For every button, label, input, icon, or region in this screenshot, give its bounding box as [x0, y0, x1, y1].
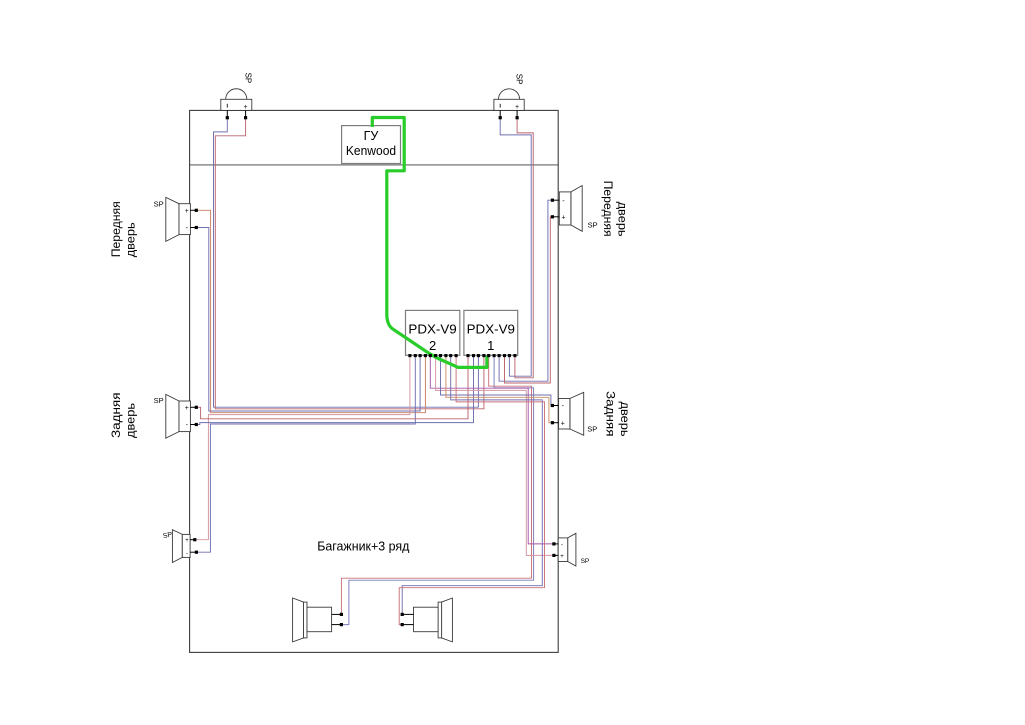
speaker front-door-left body: [166, 197, 197, 241]
amplifier terminal dots: [408, 354, 516, 357]
wire tweeter-right plus (red) from amp1 P10R: [515, 118, 533, 378]
svg-text:+: +: [244, 104, 248, 111]
svg-text:-: -: [561, 542, 563, 548]
svg-text:SP: SP: [581, 558, 590, 565]
svg-text:+: +: [561, 421, 565, 428]
wire front-door-right plus (red) from amp1 P9R: [505, 217, 553, 383]
dashboard line: [190, 164, 559, 166]
svg-text:SP: SP: [154, 199, 164, 208]
wire tweeter-right minus (blue) from amp1 P10L: [500, 118, 531, 377]
head unit ГУ Kenwood: [342, 126, 401, 164]
amplifier PDX-V9 1: [464, 310, 518, 355]
wire rear-door-left plus (red) to amp1 P6L: [196, 355, 468, 419]
svg-text:PDX-V9: PDX-V9: [467, 322, 515, 337]
speaker front-door-right body: [552, 186, 582, 232]
wire tweeter-left plus (red) to amp1 P7R: [215, 118, 484, 409]
wire rear-door-left minus (blue) to amp1 P6R: [196, 355, 473, 424]
svg-text:+: +: [185, 538, 189, 544]
green wire from head unit to amplifier PDX-V9 1: [372, 118, 487, 368]
wire rear-door-right plus (orange) from amp2 P4R: [446, 355, 553, 422]
svg-text:Багажник+3 ряд: Багажник+3 ряд: [317, 539, 410, 554]
svg-text:SP: SP: [514, 74, 523, 85]
svg-text:ГУ: ГУ: [364, 129, 379, 143]
svg-text:+: +: [185, 405, 189, 412]
wire front-door-left plus (orange-red) to amp2 P2R: [196, 210, 425, 412]
amplifier PDX-V9 2: [406, 310, 460, 355]
wire tweeter-left minus (blue) to amp1 P7L: [214, 118, 479, 408]
svg-text:SP: SP: [243, 73, 252, 84]
svg-text:PDX-V9: PDX-V9: [408, 322, 456, 337]
speaker third-row-left body: [172, 530, 196, 563]
svg-text:SP: SP: [154, 396, 164, 405]
svg-text:+: +: [561, 215, 565, 222]
wire subwoofer-right minus (blue) from amp2 P5L: [402, 355, 542, 614]
wire subwoofer-left minus (blue) from amp1 P8R: [341, 355, 533, 624]
svg-text:SP: SP: [587, 425, 597, 434]
subwoofer SW2 right body: [402, 598, 452, 642]
svg-text:SP: SP: [588, 220, 598, 229]
svg-text:2: 2: [429, 338, 436, 353]
speaker third-row-right body: [554, 533, 576, 566]
speaker terminal dots: [193, 116, 555, 626]
car body outline: [190, 110, 559, 652]
wire subwoofer-left plus (orange-red) from amp1 P8L: [341, 355, 531, 614]
svg-text:+: +: [515, 104, 519, 111]
wire front-door-right minus (blue) from amp1 P9L: [499, 200, 552, 381]
svg-text:+: +: [185, 208, 189, 215]
wire third-row-right minus (magenta) from amp2 P3L: [430, 355, 554, 544]
wire rear-door-right minus (blue) from amp2 P4L: [441, 355, 553, 405]
svg-text:-: -: [186, 551, 188, 557]
wire subwoofer-right plus (red) from amp2 P5R: [399, 355, 544, 624]
wire third-row-right plus (pink) from amp2 P3R: [436, 355, 554, 555]
wire third-row-left minus (blue) to amp2 P1R: [196, 355, 415, 552]
speaker rear-door-right body: [552, 392, 583, 435]
tweeter TW2 right body: [494, 89, 524, 118]
subwoofer SW1 left body: [293, 598, 342, 642]
svg-text:+: +: [560, 554, 564, 560]
wire third-row-left plus (pink) to amp2 P1L: [195, 355, 410, 539]
wire front-door-left minus (blue) to amp2 P2L: [196, 228, 420, 412]
tweeter TW1 left body: [221, 89, 252, 118]
svg-text:Kenwood: Kenwood: [346, 144, 396, 158]
speaker rear-door-left body: [166, 394, 197, 438]
svg-text:1: 1: [487, 338, 494, 353]
